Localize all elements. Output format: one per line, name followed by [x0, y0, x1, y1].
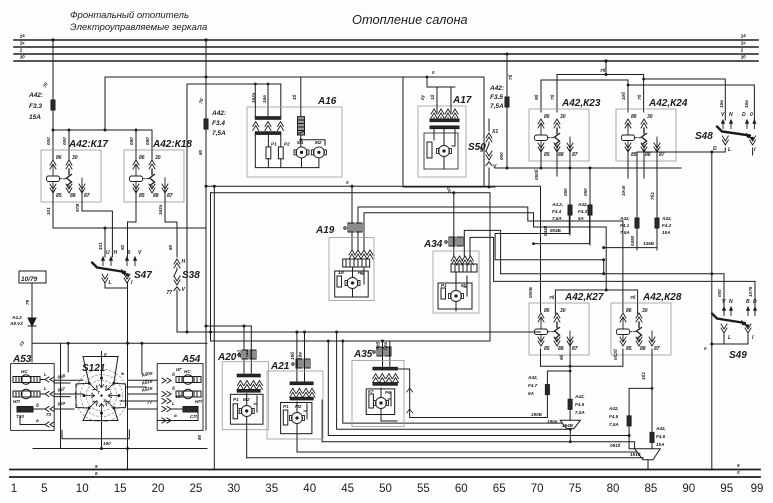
svg-text:86: 86	[139, 155, 145, 161]
A53 resistor T30	[16, 407, 42, 420]
svg-text:9б: 9б	[533, 94, 539, 100]
svg-text:D: D	[753, 299, 757, 305]
svg-text:7,5А: 7,5А	[609, 422, 619, 427]
A20 inner unit	[230, 394, 263, 424]
svg-text:87: 87	[572, 152, 578, 158]
svg-text:М2: М2	[315, 140, 322, 145]
svg-text:S49: S49	[729, 350, 747, 361]
svg-text:Электроуправляемые зеркала: Электроуправляемые зеркала	[70, 22, 207, 33]
A16 pin chevrons	[253, 122, 259, 131]
A19 motor	[345, 278, 360, 289]
wire: F4.3 output	[534, 215, 590, 244]
A54 motor 2	[176, 389, 202, 404]
A21 connector marks	[292, 359, 310, 368]
svg-text:L: L	[44, 386, 47, 391]
svg-text:9: 9	[95, 464, 98, 469]
svg-text:А42:К18: А42:К18	[152, 139, 192, 150]
wire: F4.1/F4.2 rail	[604, 228, 657, 248]
svg-text:904Б: 904Б	[550, 228, 562, 233]
wire: K23 pin87 down to F4.4	[569, 139, 571, 205]
fuse A42,F4.5	[608, 406, 635, 449]
label fuse F3.3 value	[28, 92, 43, 121]
svg-text:87: 87	[572, 346, 578, 352]
A19 connector marks	[344, 223, 362, 232]
bus 30	[14, 60, 758, 62]
svg-text:85: 85	[645, 483, 658, 495]
svg-text:091б: 091б	[610, 442, 621, 448]
relay A42,K23	[529, 109, 589, 161]
svg-text:77: 77	[147, 400, 153, 405]
svg-text:D: D	[742, 112, 746, 118]
A20 connector strip pair	[237, 374, 262, 392]
svg-text:НВ: НВ	[358, 270, 365, 275]
svg-text:85: 85	[544, 346, 550, 352]
svg-text:1076: 1076	[748, 286, 753, 297]
switch S47	[92, 250, 142, 286]
fuse A42:F3.4	[204, 119, 208, 129]
svg-text:30: 30	[647, 114, 653, 120]
wire: dropper from bus 24 at x=53	[52, 40, 54, 130]
fuse A42,F4.3	[577, 167, 592, 246]
wire from 10/79 down	[31, 283, 33, 362]
svg-text:НП: НП	[13, 399, 20, 404]
svg-text:F4.8: F4.8	[575, 402, 585, 407]
ruler numbers	[11, 483, 764, 495]
svg-text:А21: А21	[270, 361, 290, 372]
svg-text:7б: 7б	[507, 74, 513, 80]
svg-text:0450: 0450	[630, 235, 635, 246]
svg-text:85: 85	[139, 193, 145, 199]
svg-text:40: 40	[303, 483, 316, 495]
A35 resistor	[369, 394, 374, 408]
svg-text:7,5А: 7,5А	[575, 410, 585, 415]
svg-text:СП: СП	[190, 414, 197, 419]
feed labels	[236, 342, 388, 360]
svg-text:35: 35	[265, 483, 278, 495]
svg-text:19в: 19в	[298, 352, 303, 360]
svg-text:88: 88	[645, 152, 651, 158]
svg-text:050б: 050б	[533, 169, 539, 180]
svg-text:б: б	[36, 402, 39, 408]
svg-text:30: 30	[560, 308, 566, 314]
svg-text:7,5А: 7,5А	[620, 230, 630, 235]
ruler line bottom	[10, 476, 760, 478]
svg-text:B: B	[746, 299, 750, 305]
rail y=341 feeding A35	[211, 340, 491, 342]
relay A42,K27	[529, 303, 589, 355]
svg-text:S38: S38	[182, 270, 200, 281]
svg-text:0: 0	[704, 346, 707, 351]
svg-text:D: D	[713, 146, 717, 152]
svg-text:L: L	[728, 147, 731, 153]
svg-text:16в: 16в	[262, 95, 267, 103]
wire: pass-down x=336.6	[337, 332, 571, 429]
wire: K18 pin85 down to S47 right feed	[128, 190, 137, 257]
relay A42:K18	[124, 150, 184, 202]
wire: A21 motor out to bundle B6	[297, 451, 638, 453]
svg-text:А42,К27: А42,К27	[564, 292, 604, 303]
svg-text:1И: 1И	[338, 270, 345, 275]
svg-text:Р6: Р6	[385, 390, 391, 395]
svg-text:75: 75	[569, 483, 582, 495]
node: bus tap	[51, 38, 54, 41]
svg-text:S121: S121	[82, 363, 106, 374]
svg-text:30: 30	[642, 308, 648, 314]
svg-text:1б: 1б	[291, 94, 297, 100]
svg-text:30: 30	[560, 114, 566, 120]
A19 connector strip	[343, 259, 370, 267]
A34 motor	[449, 291, 464, 302]
A34 resistor	[441, 288, 446, 299]
svg-text:10/79: 10/79	[21, 276, 38, 283]
wire: A21 feeds from rail y=332	[297, 332, 305, 381]
wire: K17 pin85 down and across	[53, 190, 206, 228]
svg-text:88: 88	[640, 346, 646, 352]
wire: S38 line to K27/K28 coils	[177, 331, 541, 333]
resistor P1	[266, 147, 271, 159]
wire: K27/K28 85-87 rail y=366.3	[541, 349, 623, 366]
svg-text:5: 5	[41, 483, 47, 495]
svg-text:90: 90	[682, 483, 695, 495]
svg-text:10ч0: 10ч0	[621, 185, 626, 196]
wires S121 to A53	[54, 380, 83, 409]
svg-text:б0в: б0в	[382, 342, 388, 350]
svg-text:050: 050	[563, 188, 568, 196]
svg-text:А42,: А42,	[661, 216, 672, 221]
svg-text:S50: S50	[468, 142, 486, 153]
svg-text:25: 25	[190, 483, 203, 495]
wire: enclosure bottom rail y=448.5	[33, 448, 207, 450]
svg-text:Н: Н	[114, 250, 118, 256]
fuse A42,F4.4	[568, 205, 572, 215]
rail y=326 feeding A20	[206, 325, 251, 327]
A35 inner unit	[366, 389, 395, 415]
svg-text:15: 15	[114, 483, 127, 495]
svg-text:85: 85	[631, 152, 637, 158]
fuse A42,F4.8	[568, 394, 585, 420]
svg-text:87: 87	[654, 346, 660, 352]
svg-text:Отопление салона: Отопление салона	[352, 12, 468, 27]
bus 24	[14, 39, 758, 41]
wire: inner bottom link	[62, 430, 129, 439]
A54/A20 interlink row	[157, 420, 171, 422]
svg-text:А42,К23: А42,К23	[561, 98, 601, 109]
svg-text:Н: Н	[182, 259, 186, 265]
svg-text:НС: НС	[21, 369, 28, 374]
svg-text:F3.3: F3.3	[29, 103, 42, 110]
svg-text:М2: М2	[295, 404, 302, 409]
resistor P2	[278, 147, 283, 159]
wire to K17 pin30	[68, 130, 70, 159]
svg-text:А19: А19	[315, 225, 335, 236]
svg-text:85: 85	[56, 193, 62, 199]
svg-text:б: б	[172, 371, 175, 377]
A34 connector strip	[451, 264, 477, 272]
A20 motor	[239, 406, 254, 417]
box A53	[11, 364, 55, 431]
svg-text:70: 70	[531, 483, 544, 495]
A54 pin rows	[162, 367, 182, 423]
fuse A42:F3.5	[489, 53, 513, 169]
S121 dashed circles	[75, 369, 128, 422]
svg-text:000: 000	[717, 289, 722, 297]
wire labels 000	[46, 137, 150, 145]
wire: A34 right feed 1	[464, 230, 500, 273]
wire: S47 line crossing down	[126, 447, 129, 450]
svg-text:Х1: Х1	[491, 129, 498, 135]
svg-text:Р2: Р2	[284, 142, 290, 147]
wire: drop to S121 left	[67, 343, 69, 372]
svg-text:19б: 19б	[289, 352, 295, 360]
svg-text:9б: 9б	[558, 354, 564, 360]
svg-text:7,5А: 7,5А	[490, 103, 504, 110]
A16 dropper with connector	[300, 77, 302, 116]
svg-text:0: 0	[346, 180, 349, 185]
svg-text:5А: 5А	[578, 216, 584, 221]
svg-text:30: 30	[227, 483, 240, 495]
svg-text:87: 87	[167, 193, 173, 199]
A17 connector bars	[430, 119, 459, 122]
A34 connector marks	[445, 237, 463, 246]
svg-text:А42,: А42,	[655, 426, 666, 431]
wire: K23 pin85 down	[540, 149, 542, 168]
wire to K17 pin86	[52, 130, 54, 159]
wire: pass-down x=322.1	[322, 400, 634, 449]
svg-text:85: 85	[626, 346, 632, 352]
svg-text:73: 73	[46, 412, 52, 417]
wire: main dropper x=206 from bus 24	[205, 40, 207, 430]
wire: A19 staircase feed 2	[364, 213, 606, 290]
box A34	[433, 251, 479, 313]
wire: enclosure top rail y=343.3	[32, 342, 207, 344]
svg-text:А20: А20	[217, 352, 237, 363]
svg-text:М2: М2	[461, 283, 468, 288]
svg-text:88: 88	[558, 152, 564, 158]
svg-text:F4.5: F4.5	[609, 414, 619, 419]
A53 pin rows (chevrons)	[20, 372, 54, 427]
svg-text:0: 0	[432, 70, 435, 75]
wire: S47 left feed	[104, 228, 106, 257]
svg-text:L: L	[44, 372, 47, 377]
svg-text:ИГ: ИГ	[176, 367, 182, 372]
svg-text:145В: 145В	[643, 241, 655, 246]
box A17	[418, 106, 466, 177]
A21 resistor	[283, 410, 288, 425]
A17 pin chevrons	[431, 109, 437, 118]
svg-text:К7: К7	[368, 389, 374, 394]
A54 motor 1	[176, 369, 201, 384]
svg-text:101: 101	[46, 207, 51, 215]
svg-text:7б: 7б	[549, 94, 555, 100]
splice 191B	[630, 449, 660, 470]
A34 inner unit	[438, 283, 472, 309]
wire: A19 staircase feed 1	[358, 207, 623, 312]
wire: junction rail feeding K17/K18 coils	[53, 129, 152, 131]
A35 connector marks	[373, 347, 391, 356]
A20 resistor	[233, 404, 238, 419]
svg-text:000: 000	[499, 152, 504, 160]
svg-text:N: N	[729, 112, 733, 118]
wire: bus30 tap feeding K23/K24 pin30 rail	[557, 61, 644, 75]
relay A42,K28	[611, 303, 671, 355]
wires S121 to A54	[120, 380, 157, 409]
box A21	[267, 371, 323, 439]
svg-text:7б: 7б	[636, 94, 642, 100]
motor M2	[311, 147, 326, 158]
svg-text:Фронтальный отопитель: Фронтальный отопитель	[70, 10, 189, 21]
svg-text:Р1: Р1	[283, 404, 289, 409]
wire: A16 feeds	[268, 84, 281, 116]
wire: K28 87 to F4.5/F4.6	[629, 349, 652, 432]
switch S48	[713, 112, 757, 153]
A21 connector strip pair	[290, 382, 315, 400]
svg-text:10б: 10б	[620, 92, 626, 100]
wire to K18 pin30	[151, 130, 153, 159]
wire: A17 loop right/bottom/left	[403, 77, 484, 187]
svg-text:0: 0	[750, 112, 753, 118]
svg-text:А42,К24: А42,К24	[648, 98, 688, 109]
svg-text:А17: А17	[452, 95, 472, 106]
fuse A42,F4.2	[655, 218, 659, 228]
svg-text:16в: 16в	[719, 100, 724, 108]
svg-text:б0б: б0б	[375, 342, 381, 350]
svg-text:F3.5: F3.5	[490, 94, 503, 101]
svg-text:88: 88	[558, 346, 564, 352]
wire: feeder y=77 from K17 rail to A17 loop	[105, 77, 484, 130]
svg-text:L: L	[172, 401, 175, 406]
fuse A42,F4.1	[635, 218, 639, 228]
wire: long vertical x=711.8	[711, 152, 713, 470]
A34 pin chevrons	[451, 256, 457, 265]
svg-text:9: 9	[737, 463, 740, 468]
A19 inner unit	[335, 271, 369, 297]
tiny ruler wire labels	[95, 463, 740, 476]
svg-text:F3.4: F3.4	[212, 120, 225, 127]
svg-text:F4.3: F4.3	[578, 209, 588, 214]
wire: vertical x=214.3	[213, 186, 215, 470]
svg-text:S47: S47	[134, 270, 152, 281]
svg-text:85: 85	[544, 152, 550, 158]
S121 contacts	[83, 377, 121, 415]
svg-text:7,5А: 7,5А	[552, 216, 562, 221]
svg-text:80: 80	[198, 149, 203, 155]
svg-text:А8.V2: А8.V2	[9, 321, 23, 326]
svg-text:А35: А35	[353, 349, 373, 360]
svg-text:А54: А54	[181, 354, 201, 365]
wire: relay30 rail	[555, 290, 637, 314]
svg-text:6: 6	[95, 471, 98, 476]
wires inside A16	[255, 84, 325, 168]
wire: S38 output down then right	[176, 290, 178, 332]
wire H1 y=186.3	[206, 186, 541, 312]
A16 connector bars	[255, 117, 280, 135]
wire: S48 right output stub	[752, 148, 754, 155]
svg-text:А42,: А42,	[527, 375, 538, 380]
A53 motor 2	[13, 389, 40, 404]
svg-text:86: 86	[626, 308, 632, 314]
wire: K24 pin87 down to F4.2	[656, 139, 658, 218]
svg-text:101: 101	[98, 242, 103, 250]
relay A42:K17	[41, 150, 101, 202]
svg-text:7б: 7б	[600, 67, 606, 73]
svg-text:М1: М1	[297, 140, 304, 145]
svg-text:7б: 7б	[549, 294, 555, 300]
svg-text:в: в	[36, 418, 39, 423]
switch S38	[167, 244, 186, 296]
motor M1	[294, 147, 309, 158]
svg-text:50: 50	[379, 483, 392, 495]
svg-text:N: N	[729, 299, 733, 305]
svg-text:92: 92	[120, 244, 125, 250]
svg-text:5А: 5А	[528, 391, 534, 396]
svg-text:1б1: 1б1	[640, 372, 646, 380]
A19 resistor	[337, 276, 342, 287]
svg-text:45: 45	[341, 483, 354, 495]
svg-text:30: 30	[72, 155, 78, 161]
svg-text:60: 60	[455, 483, 468, 495]
svg-text:19б: 19б	[236, 350, 242, 358]
A21 motor	[290, 413, 305, 424]
svg-text:в: в	[174, 413, 177, 418]
A21 inner unit	[281, 403, 312, 434]
box A54	[157, 364, 203, 431]
fuse A42,F4.7	[527, 371, 570, 418]
svg-text:0: 0	[128, 250, 131, 256]
svg-text:L: L	[728, 335, 731, 341]
wire: S121 bottom stem	[101, 413, 103, 448]
box A19	[329, 238, 374, 301]
svg-text:F4.7: F4.7	[528, 383, 538, 388]
svg-text:77: 77	[167, 290, 173, 296]
svg-text:А42,К28: А42,К28	[642, 292, 682, 303]
wire: coil rail y=84	[541, 80, 628, 112]
wire: branch y=84 to A16	[187, 83, 281, 85]
svg-text:0: 0	[104, 352, 107, 357]
svg-text:88: 88	[153, 193, 159, 199]
svg-text:А42:: А42:	[489, 85, 504, 92]
wire: rail y=273.7 to S49	[501, 274, 724, 315]
svg-text:0у: 0у	[420, 94, 425, 100]
fuse A42:F3.3	[51, 100, 55, 110]
svg-text:87: 87	[659, 152, 665, 158]
svg-text:L: L	[109, 280, 112, 286]
node junction	[52, 129, 55, 132]
svg-text:Р1: Р1	[271, 142, 277, 147]
wire: K23 pin30 drop	[556, 75, 558, 113]
splice 194B	[547, 419, 580, 443]
wire labels under K23	[533, 169, 588, 236]
svg-text:080: 080	[145, 137, 150, 145]
wire: A35 feeds	[383, 341, 390, 366]
collector rail y=168	[495, 167, 681, 169]
rotary switch S121 outline	[76, 352, 126, 421]
wire: vertical x=210.5	[210, 193, 212, 341]
svg-text:190Б: 190Б	[531, 412, 543, 417]
svg-text:А4.2: А4.2	[11, 315, 22, 320]
svg-text:1б: 1б	[429, 94, 435, 100]
switch S49	[704, 299, 757, 351]
A17 inner unit	[424, 133, 458, 169]
A35 motor	[374, 398, 389, 409]
resistor	[427, 142, 432, 158]
bus labels left	[18, 33, 25, 60]
svg-text:F4.1: F4.1	[620, 223, 630, 228]
svg-text:А16: А16	[317, 96, 337, 107]
svg-text:А53: А53	[12, 354, 32, 365]
svg-text:10: 10	[76, 483, 89, 495]
svg-text:190: 190	[103, 441, 111, 446]
svg-text:U: U	[106, 250, 110, 256]
